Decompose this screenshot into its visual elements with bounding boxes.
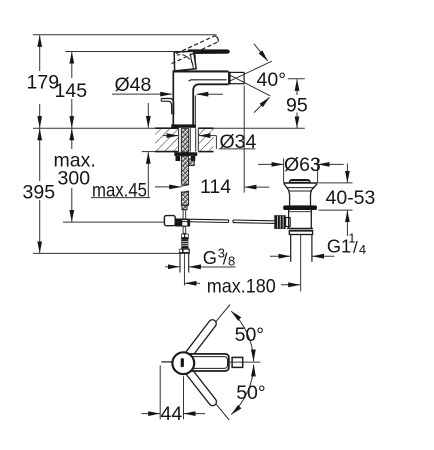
svg-text:Ø48: Ø48 xyxy=(115,74,152,96)
svg-text:1: 1 xyxy=(348,230,355,245)
svg-text:G: G xyxy=(203,248,217,268)
svg-text:40-53: 40-53 xyxy=(326,187,376,209)
svg-text:395: 395 xyxy=(23,181,56,203)
svg-text:114: 114 xyxy=(200,176,231,198)
svg-text:50°: 50° xyxy=(235,324,265,346)
svg-text:Ø34: Ø34 xyxy=(220,131,257,153)
svg-text:95: 95 xyxy=(286,95,308,117)
svg-text:3: 3 xyxy=(218,246,225,261)
svg-text:50°: 50° xyxy=(236,382,266,404)
svg-text:Ø63: Ø63 xyxy=(284,154,321,176)
svg-text:44: 44 xyxy=(161,403,183,425)
svg-text:max.180: max.180 xyxy=(207,276,276,298)
svg-text:145: 145 xyxy=(55,80,88,102)
svg-text:4: 4 xyxy=(359,242,366,257)
svg-text:300: 300 xyxy=(58,167,91,189)
svg-text:8: 8 xyxy=(228,253,235,268)
svg-text:max.45: max.45 xyxy=(92,179,147,201)
svg-text:40°: 40° xyxy=(257,69,287,91)
